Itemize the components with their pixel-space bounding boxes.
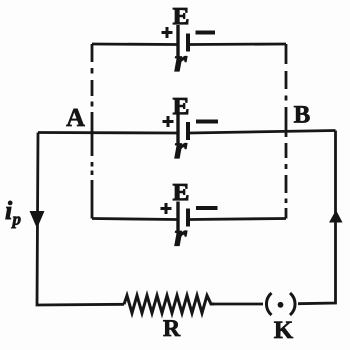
svg-text:A: A xyxy=(66,103,85,132)
svg-text:r: r xyxy=(174,43,187,78)
svg-text:r: r xyxy=(174,130,187,165)
svg-text:r: r xyxy=(174,218,187,253)
svg-text:E: E xyxy=(173,94,190,120)
svg-text:E: E xyxy=(173,4,190,30)
svg-text:K: K xyxy=(274,317,294,344)
svg-text:B: B xyxy=(294,102,311,129)
svg-text:R: R xyxy=(163,316,181,342)
svg-text:p: p xyxy=(11,210,22,229)
svg-text:E: E xyxy=(173,180,190,206)
